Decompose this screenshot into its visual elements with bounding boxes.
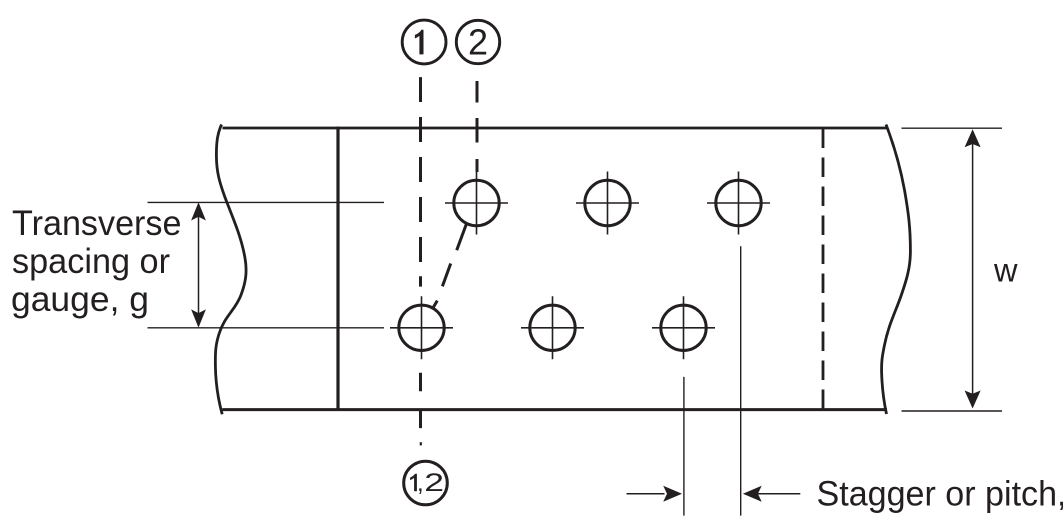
svg-text:2: 2 [468, 21, 488, 62]
hole B3 (bottom row right) [652, 296, 715, 359]
hole A1 (top row left) [445, 172, 508, 235]
svg-text:Transverse: Transverse [12, 204, 182, 243]
left break line [215, 125, 246, 415]
section line 1 dot [420, 442, 422, 445]
svg-text:2: 2 [424, 469, 444, 497]
stagger extension line right [740, 246, 742, 515]
section marker circle 2 [456, 20, 499, 63]
gauge arrowhead up [191, 202, 206, 220]
stagger left arrow shaft [627, 493, 665, 495]
svg-text:Stagger or pitch,: Stagger or pitch, [817, 474, 1063, 513]
svg-text:,: , [417, 470, 424, 497]
stagger left arrowhead [663, 486, 682, 502]
section line 2 dashes [476, 81, 479, 172]
right dashed plate line [822, 129, 825, 409]
plate top edge [223, 127, 888, 130]
w arrowhead down [965, 391, 981, 409]
section marker circle 1 [402, 20, 446, 64]
plate bottom edge [222, 408, 887, 411]
hole B2 (bottom row middle) [521, 296, 584, 359]
w dimension arrow line [972, 131, 974, 407]
w extension line top [902, 127, 1003, 129]
hole B1 (bottom row left) [390, 296, 453, 359]
svg-text:spacing or: spacing or [12, 242, 170, 281]
svg-text:w: w [993, 252, 1018, 289]
hole A2 (top row middle) [576, 172, 639, 235]
section marker circle 1,2 [404, 461, 448, 505]
svg-text:gauge, g: gauge, g [11, 280, 149, 319]
staggered path diagonal dashes [433, 225, 466, 308]
gauge dimension arrow line [198, 204, 200, 326]
gauge extension line top [148, 201, 385, 203]
w arrowhead up [965, 129, 981, 147]
stagger right arrow shaft [758, 493, 800, 495]
gauge arrowhead down [191, 309, 206, 327]
stagger right arrowhead [743, 486, 762, 502]
section line 1 dashes [419, 77, 422, 428]
gross section solid line [336, 127, 339, 411]
stagger extension line left [683, 377, 685, 516]
w extension line bottom [902, 410, 1003, 412]
gauge extension line bottom [148, 327, 385, 329]
right break line [882, 125, 911, 415]
hole A3 (top row right) [707, 172, 770, 235]
